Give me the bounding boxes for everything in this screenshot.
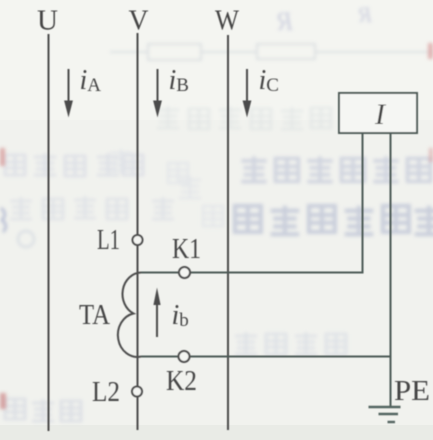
- bus W: [227, 35, 229, 430]
- bus U: [48, 34, 50, 431]
- terminal K1: [179, 267, 190, 278]
- svg-text:K1: K1: [172, 234, 201, 265]
- svg-text:L2: L2: [92, 377, 120, 408]
- ground PE: [369, 407, 401, 422]
- svg-text:TA: TA: [79, 300, 111, 331]
- bleed-through text band B left (y 148-182): [5, 153, 143, 176]
- svg-text:K2: K2: [166, 366, 197, 397]
- bleed-through faint middle blobs: [110, 149, 223, 226]
- bus V: [137, 33, 139, 430]
- svg-text:V: V: [129, 6, 149, 37]
- bleed-through letter R mirrored top: [277, 2, 373, 36]
- svg-text:R: R: [277, 7, 294, 36]
- ammeter box: [339, 93, 417, 133]
- wire: right lead down to ground: [390, 133, 392, 407]
- bleed-through text band E (bottom left): [5, 399, 81, 421]
- bleed-through text band B right (y 146-182): [241, 156, 430, 181]
- arrow iC: [243, 69, 252, 118]
- bleed-through faint circle: [18, 231, 34, 247]
- bleed-through text band A (y 100-140): [157, 106, 331, 129]
- wire: K2 wire: [141, 356, 391, 358]
- terminal L1: [133, 235, 143, 245]
- svg-text:R: R: [358, 2, 373, 27]
- bleed-through text band D (y 328-356): [235, 332, 346, 354]
- svg-text:W: W: [215, 6, 240, 37]
- arrow iB: [153, 69, 162, 118]
- svg-text:L1: L1: [97, 225, 120, 256]
- bleed-through text band C right (y 196-236): [235, 206, 433, 235]
- transformer TA winding: [118, 273, 141, 357]
- bleed-through text band C left (y 192-228): [10, 196, 174, 219]
- svg-text:U: U: [37, 6, 58, 37]
- svg-text:PE: PE: [394, 375, 430, 407]
- arrow iA: [64, 69, 73, 118]
- wire: left lead + K1 wire: [141, 133, 363, 273]
- terminal L2: [132, 387, 142, 397]
- terminal K2: [179, 351, 190, 362]
- bleed-through resistor row (reverse page): [110, 44, 433, 60]
- arrow ib: [153, 288, 160, 338]
